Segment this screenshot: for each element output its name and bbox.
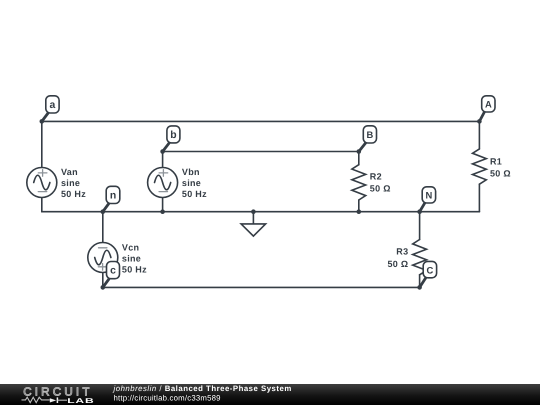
voltage source Vcn (flipped) [88, 243, 147, 275]
svg-text:50 Hz: 50 Hz [61, 189, 86, 199]
junction dot node C [417, 285, 422, 290]
svg-text:sine: sine [182, 178, 201, 188]
junction dot node A [477, 119, 482, 124]
svg-text:50 Ω: 50 Ω [370, 184, 391, 194]
svg-text:c: c [110, 266, 116, 277]
svg-text:b: b [170, 130, 176, 141]
junction dot node N [417, 209, 422, 214]
wire b to Vbn top [162, 152, 164, 168]
wire top a-A [42, 120, 480, 122]
svg-text:50 Hz: 50 Hz [182, 189, 207, 199]
wire Vcn bottom to c [102, 272, 104, 287]
CircuitLab logo LAB [67, 398, 94, 405]
svg-text:Vbn: Vbn [182, 167, 200, 177]
wire bottom c-C [103, 286, 420, 288]
svg-text:n: n [110, 190, 116, 201]
junction dot node B [357, 149, 362, 154]
node flag B [359, 126, 377, 152]
svg-text:a: a [50, 100, 56, 111]
resistor R2 [352, 152, 391, 212]
ground [241, 212, 266, 236]
node flag A [479, 96, 495, 122]
attribution line 2 [114, 393, 221, 402]
svg-text:R1: R1 [490, 156, 502, 166]
wire a to Van top [41, 121, 43, 167]
svg-text:50 Ω: 50 Ω [387, 259, 408, 269]
wire n to Vcn top [102, 212, 104, 243]
wire neutral row [42, 211, 480, 213]
svg-text:R2: R2 [370, 172, 382, 182]
node flag b [163, 126, 180, 152]
svg-text:CIRCUIT: CIRCUIT [23, 385, 92, 398]
CircuitLab logo resistor-diode line [22, 397, 68, 403]
attribution line 1 [113, 384, 292, 393]
svg-text:Van: Van [61, 167, 78, 177]
junction dot ground-neutral [251, 209, 256, 214]
resistor R1 [473, 121, 511, 211]
svg-text:sine: sine [61, 178, 80, 188]
svg-text:LAB: LAB [67, 398, 94, 405]
wire Van bottom to neutral [41, 197, 43, 211]
junction dot node a [40, 119, 45, 124]
svg-text:johnbreslin / Balanced Three-P: johnbreslin / Balanced Three-Phase Syste… [113, 384, 292, 393]
svg-text:C: C [427, 264, 434, 275]
junction dot node b [160, 149, 165, 154]
node flag a [42, 96, 59, 122]
junction dot node c [101, 285, 106, 290]
svg-text:50 Ω: 50 Ω [490, 168, 511, 178]
wire Vbn bottom to neutral [162, 197, 164, 211]
junction dot R2-neutral [357, 209, 362, 214]
wire b-B [163, 151, 359, 153]
junction dot node n [101, 209, 106, 214]
resistor R3 [387, 212, 426, 288]
svg-text:50 Hz: 50 Hz [122, 265, 147, 275]
svg-text:B: B [367, 129, 374, 140]
svg-text:N: N [426, 189, 433, 200]
svg-text:http://circuitlab.com/c33m589: http://circuitlab.com/c33m589 [114, 393, 221, 402]
footer bar [0, 384, 540, 405]
node flag C [420, 261, 437, 287]
svg-text:R3: R3 [396, 247, 408, 257]
voltage source Van [27, 167, 86, 199]
voltage source Vbn [148, 167, 208, 199]
junction dot Vbn-neutral [160, 209, 165, 214]
node flag n [103, 186, 120, 211]
svg-text:A: A [485, 99, 492, 110]
svg-text:sine: sine [122, 254, 141, 264]
svg-text:Vcn: Vcn [122, 243, 139, 253]
node flag c [103, 262, 120, 288]
node flag N [420, 187, 436, 212]
CircuitLab logo CIRCUIT [23, 385, 92, 398]
